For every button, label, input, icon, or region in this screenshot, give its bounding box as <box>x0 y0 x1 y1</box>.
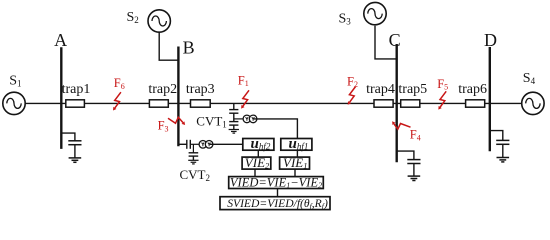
wire: main transmission line S1 to S4 <box>25 102 522 104</box>
wire VIED to SVIED <box>277 189 279 197</box>
svg-text:D: D <box>484 30 497 50</box>
source S4 <box>522 92 544 114</box>
CVT2 wire to ground <box>192 156 194 160</box>
wave trap trap6 <box>466 100 485 107</box>
ground at bus D <box>497 158 510 162</box>
svg-text:trap6: trap6 <box>458 82 487 97</box>
svg-text:trap3: trap3 <box>186 82 215 97</box>
ground at bus C <box>408 176 421 180</box>
CVT2 capacitor C1 (vertical plates) <box>187 140 191 149</box>
bus C <box>396 44 398 162</box>
CVT1 capacitor C2 <box>229 122 238 126</box>
wire VIE2 to VIED <box>254 169 256 177</box>
shunt branch at bus C: wire <box>397 151 414 160</box>
wire VIE1 to VIED <box>294 169 296 177</box>
svg-text:A: A <box>54 30 67 50</box>
svg-text:CVT1: CVT1 <box>196 114 227 130</box>
CVT1 capacitor C1 <box>229 110 238 114</box>
svg-text:trap1: trap1 <box>62 82 91 97</box>
wire cap to ground at bus A <box>74 145 76 158</box>
svg-text:SVIED=VIED/f(θf,Rf): SVIED=VIED/f(θf,Rf) <box>227 197 328 211</box>
CVT1 divider wire <box>233 113 235 121</box>
fault F3 bolt <box>168 117 185 125</box>
wave trap trap4 <box>374 100 393 107</box>
svg-text:trap4: trap4 <box>366 82 395 97</box>
capacitor at bus C <box>407 160 420 164</box>
shunt branch at bus D: wire <box>490 131 503 141</box>
wire cap to ground at bus D <box>502 144 504 157</box>
svg-text:VIED=VIE1−VIE2: VIED=VIE1−VIE2 <box>230 175 322 190</box>
CVT2 tap wire down <box>192 144 194 153</box>
CVT1 tap wire to winding <box>234 118 243 120</box>
fault F4 bolt <box>392 121 410 129</box>
wire S3 to bus C <box>375 26 397 59</box>
bus D <box>489 47 491 151</box>
source S1 <box>3 92 25 114</box>
wire cap to ground at bus C <box>413 164 415 176</box>
svg-text:C: C <box>389 30 401 50</box>
wire u_hf1 to VIE1 <box>296 150 298 157</box>
block SVIED <box>220 197 330 210</box>
source S2 <box>148 10 170 32</box>
capacitor at bus A <box>68 141 81 145</box>
block VIE2 <box>242 157 271 169</box>
svg-text:trap5: trap5 <box>398 82 427 97</box>
wave trap trap3 <box>191 100 211 107</box>
wire S2 to bus B <box>159 32 178 60</box>
fault F2 bolt <box>348 87 356 105</box>
fault F1 bolt <box>241 90 249 108</box>
wave trap trap2 <box>149 100 168 107</box>
wave trap trap5 <box>401 100 420 107</box>
svg-text:trap2: trap2 <box>148 82 177 97</box>
CVT2 lead from bus B <box>178 143 186 145</box>
capacitor at bus D <box>496 140 509 144</box>
CVT1 wire to ground <box>233 125 235 129</box>
wire u_hf2 to VIE2 <box>257 150 259 157</box>
CVT2 capacitor C2 <box>189 153 199 156</box>
svg-text:B: B <box>183 38 195 58</box>
CVT2 divider wire <box>190 143 199 145</box>
svg-text:CVT2: CVT2 <box>180 167 211 183</box>
CVT1 lead from line <box>233 103 235 109</box>
block u_hf1 <box>281 139 312 151</box>
fault F5 bolt <box>438 91 446 109</box>
ground at bus A <box>69 158 82 162</box>
wave trap trap1 <box>66 100 85 107</box>
CVT2 winding <box>199 141 213 149</box>
fault F6 bolt <box>113 92 121 110</box>
block VIE1 <box>280 157 310 169</box>
CVT2 ground <box>188 160 198 164</box>
shunt branch at bus A: wire <box>61 133 75 141</box>
bus B <box>177 47 179 147</box>
block u_hf2 <box>243 139 274 151</box>
source S3 <box>364 2 386 24</box>
wire CVT1 winding to u_hf1 box <box>254 119 298 139</box>
CVT1 ground <box>229 130 239 134</box>
bus A <box>60 47 62 149</box>
block VIED <box>229 177 324 189</box>
wire CVT2 winding to u_hf2 box <box>210 143 243 145</box>
CVT1 winding <box>243 115 257 123</box>
